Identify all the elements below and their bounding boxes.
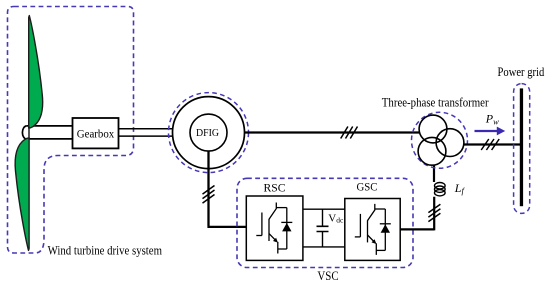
svg-text:Gearbox: Gearbox	[77, 126, 115, 140]
turbine blade bottom	[15, 138, 29, 251]
svg-text:GSC: GSC	[357, 180, 378, 194]
DFIG inner circle	[190, 114, 227, 151]
DFIG outer circle	[173, 97, 245, 169]
hub	[22, 126, 26, 139]
wind turbine drive system boundary	[8, 7, 134, 254]
capacitor C1	[322, 209, 324, 247]
turbine blade top	[29, 16, 43, 129]
three-phase slashes (rotor wire)	[203, 186, 215, 204]
power grid dashed boundary	[514, 84, 530, 214]
blade spine at hub	[28, 127, 30, 140]
svg-text:RSC: RSC	[264, 180, 286, 194]
svg-text:Power grid: Power grid	[498, 65, 545, 79]
power grid bus bar	[520, 88, 523, 206]
svg-text:DFIG: DFIG	[196, 128, 219, 139]
transformer winding C	[418, 137, 446, 165]
high-speed shaft	[119, 129, 174, 136]
gearbox G1	[73, 118, 119, 148]
transformer dashed circle	[412, 112, 468, 168]
transformer bottom wire	[433, 165, 435, 182]
three-phase slashes (stator wire)	[341, 127, 358, 139]
three-phase slashes (grid wire)	[481, 139, 499, 150]
RSC IGBT	[256, 203, 292, 254]
transformer winding A	[419, 115, 447, 143]
DC link bottom rail	[303, 246, 345, 248]
converter GSC box	[345, 199, 400, 261]
DC link top rail	[303, 208, 345, 210]
main shaft	[27, 126, 73, 139]
transformer winding B	[436, 129, 464, 157]
three-phase slashes (Lf wire)	[428, 204, 440, 221]
grid wire	[464, 143, 520, 145]
svg-text:Three-phase transformer: Three-phase transformer	[382, 96, 490, 110]
converter RSC box	[246, 196, 303, 260]
GSC IGBT	[355, 204, 391, 255]
GSC output wire	[400, 197, 434, 231]
DFIG dashed circle	[169, 93, 249, 173]
svg-text:Wind turbine drive system: Wind turbine drive system	[48, 243, 163, 257]
svg-text:VSC: VSC	[317, 269, 338, 283]
rotor wire	[207, 151, 246, 227]
Pw power flow arrow	[475, 130, 498, 132]
stator wire	[244, 131, 420, 133]
VSC dashed box	[237, 178, 413, 267]
inductor Lf coil	[435, 183, 446, 196]
